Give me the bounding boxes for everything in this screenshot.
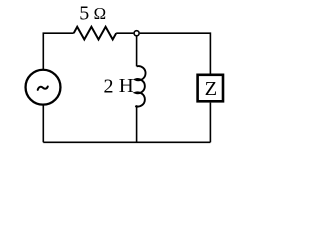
resistor R1 5 ohm zigzag [74,27,117,40]
svg-text:Ω: Ω [94,4,106,23]
wire resistor to node [116,32,133,34]
node A open terminal circle [134,31,139,36]
bottom rail wire [43,141,210,143]
wire inductor bottom to bottom rail [136,105,138,142]
svg-text:H: H [119,76,134,97]
wire node to top-right corner down to Z box [140,33,211,73]
svg-text:5: 5 [79,2,89,24]
wire source bottom to bottom rail [42,105,44,142]
AC source V1 circle [26,70,61,105]
wire Z box bottom to bottom rail [209,103,211,143]
inductor L1 coil (cute choke, 3 loops) [135,66,145,107]
svg-text:Z: Z [205,78,218,100]
impedance box Z outline [198,75,223,102]
svg-text:2: 2 [104,75,114,97]
wire top-left: from source top up and right to resistor [43,33,73,69]
wire node down to inductor [136,36,138,67]
AC source sine tilde [38,87,48,90]
